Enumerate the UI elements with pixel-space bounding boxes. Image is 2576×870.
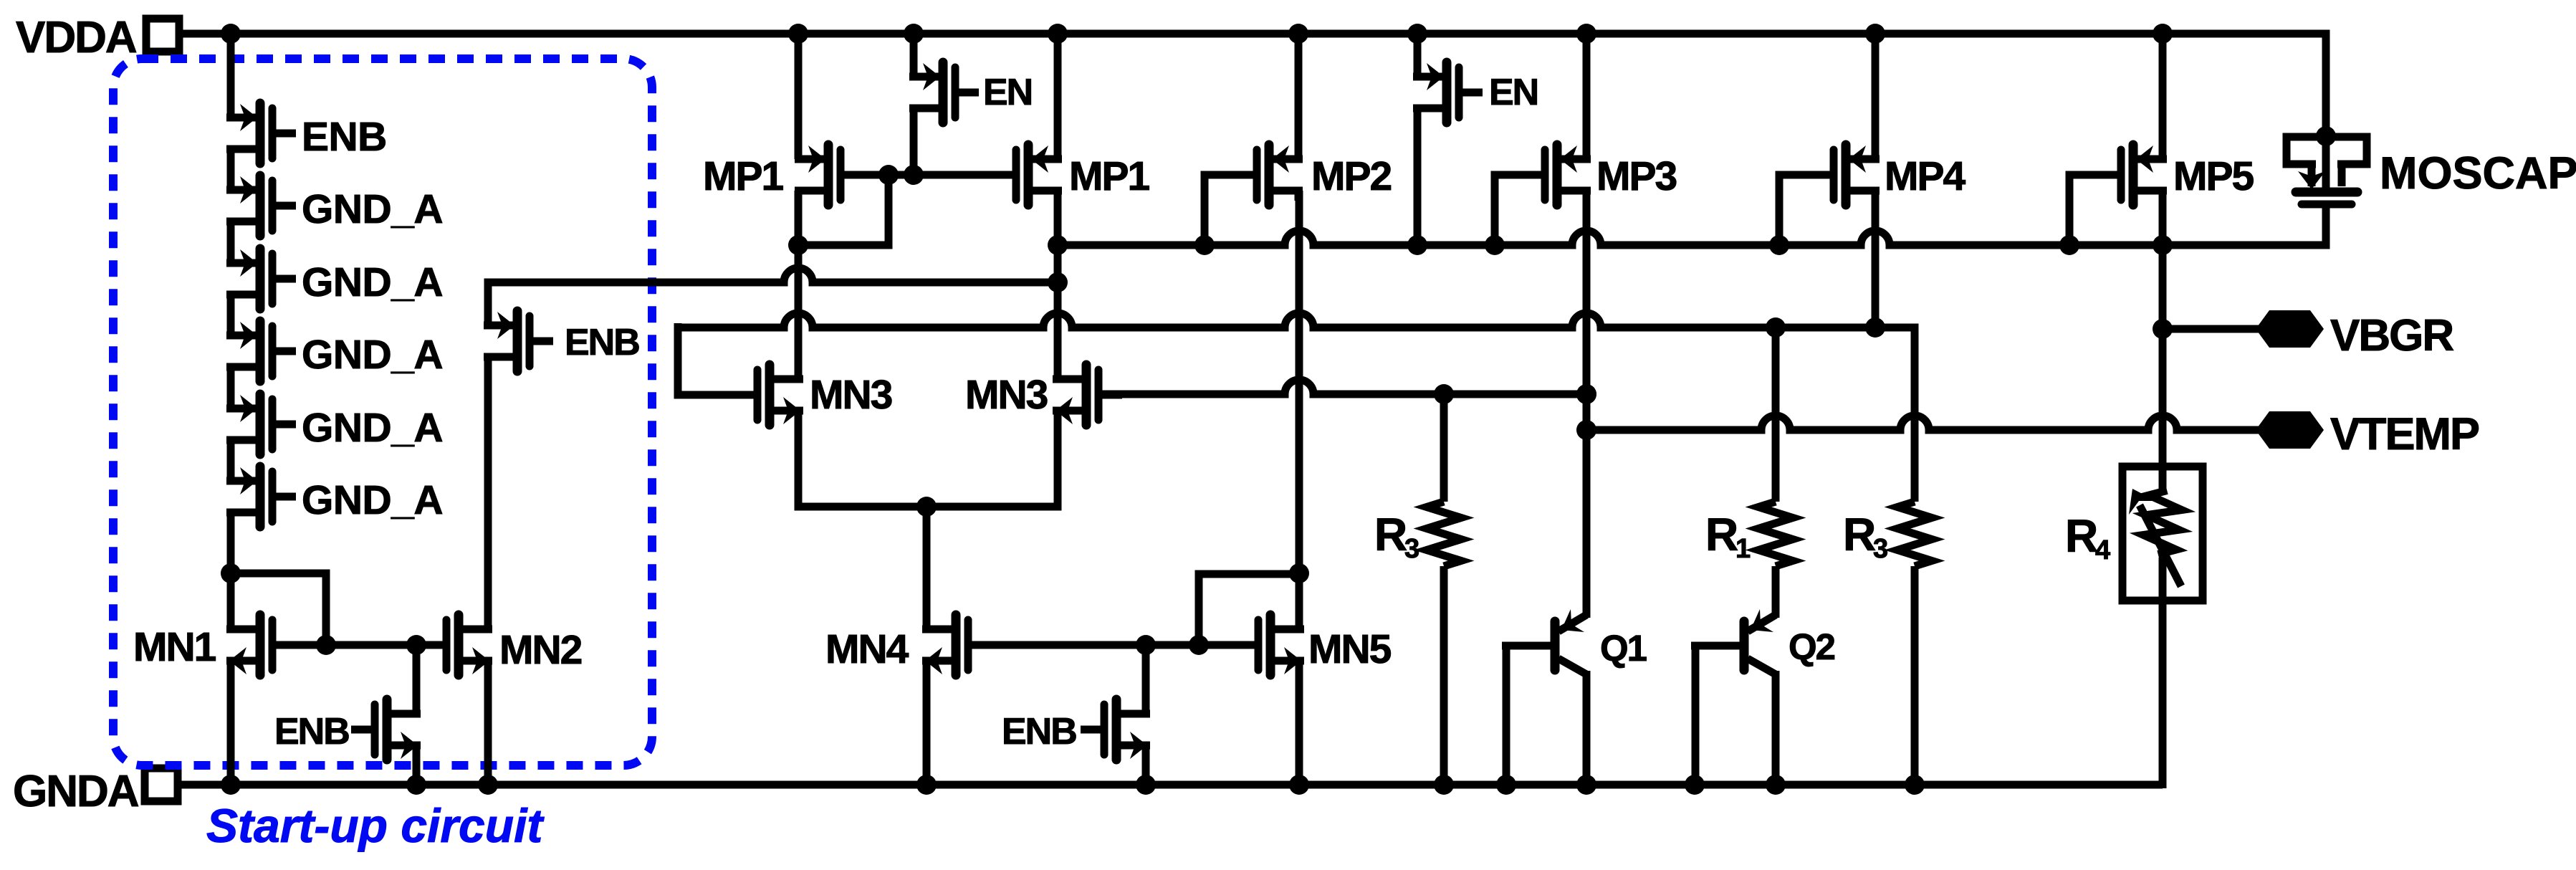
transistor MP4 (1810, 145, 1880, 205)
transistor Q2 (PNP) (1691, 609, 1776, 674)
wire MP5 drain column through R4 to ground (2159, 191, 2167, 788)
output pad VTEMP (2256, 411, 2324, 449)
wire MN3 gate line (feedback) (678, 313, 1915, 502)
transistor MP5 (2097, 145, 2167, 205)
wire ENB pulldown drain riser (413, 645, 421, 714)
terminal pad VDDA (146, 19, 179, 52)
svg-text:MP3: MP3 (1596, 153, 1677, 199)
transistor MN5 (1235, 615, 1304, 675)
wire MP1R source from rail (1054, 34, 1062, 159)
svg-text:MN2: MN2 (499, 627, 582, 673)
transistor Q1 (PNP) (1502, 609, 1586, 674)
svg-text:VDDA: VDDA (16, 13, 137, 62)
transistor startup stack M6 (PMOS diode) (226, 467, 296, 527)
transistor MN3 (left) (734, 365, 803, 425)
resistor R4 adjust arrow (2129, 489, 2181, 586)
transistor startup stack M5 (PMOS diode) (226, 394, 296, 454)
junction dots on MP3 drain column (1576, 384, 1596, 440)
wire R3b bottom to ground (1911, 566, 1919, 785)
wire MP4 drain to MN3 gate line (1872, 191, 1880, 328)
transistor MP1 (left) (795, 145, 864, 205)
resistor R4 zigzag (2141, 488, 2184, 557)
transistor MP3 (1521, 145, 1591, 205)
svg-text:VBGR: VBGR (2330, 311, 2453, 360)
junction dots on MP1 gate line (878, 165, 924, 185)
svg-text:MP2: MP2 (1311, 153, 1392, 199)
wire node to MN1/MN2 gate line (L) (231, 573, 326, 645)
output pad VBGR (2256, 310, 2324, 348)
svg-text:MP5: MP5 (2173, 153, 2254, 199)
junction node above MN1 (221, 563, 241, 583)
wire startup output line to MN3 drains (488, 268, 1058, 325)
junction dots on MN1-MN2 gate line (316, 635, 426, 655)
resistor R3 (second) (1897, 502, 1932, 566)
wire gate line MN1-MN2 (272, 641, 448, 649)
svg-text:MP1: MP1 (1069, 153, 1150, 199)
wire Q2 base to ground (1692, 646, 1700, 785)
wire EN2 drain to bias line (1414, 105, 1422, 245)
wire MN3L gate lead and riser to line (678, 323, 760, 395)
junction dot MN5 drain node (1289, 563, 1309, 583)
wire Q1 collector to ground (1583, 671, 1591, 785)
wire MP1L gate to drain (L) (798, 175, 889, 245)
junction dot VBGR node (2153, 319, 2173, 339)
wire MP3 gate lead to bias line (1495, 175, 1542, 245)
transistor MP2 (1233, 145, 1303, 205)
svg-text:GND_A: GND_A (302, 259, 443, 305)
wire startup ENB drain down to MN2 drain (484, 357, 492, 629)
wire MN2 source to ground (484, 661, 492, 785)
wire ENB2 drain riser (1142, 645, 1150, 714)
wire gate line MN4-MN5 (968, 641, 1260, 649)
wire MP1L drain down to MN3 drain (795, 191, 803, 379)
resistor R4 (adjustable) box (2122, 467, 2203, 601)
transistor EN switch 1 (PMOS) (909, 62, 979, 123)
wire MP5 gate lead to bias line (2069, 175, 2118, 245)
junction dot MP1L drain (788, 235, 808, 255)
svg-text:MP4: MP4 (1885, 153, 1966, 199)
svg-text:3: 3 (1873, 534, 1887, 564)
resistor R3 (first) (1427, 502, 1461, 566)
wire MP2 source from rail (1295, 34, 1303, 159)
wire MP1R drain down to MN3 drain (1054, 191, 1062, 379)
junction dots on MP1R drain (1048, 235, 1068, 292)
svg-text:R: R (1705, 509, 1738, 560)
wire MP3 drain column to Q1 emitter (1583, 191, 1591, 618)
wire gate bias line to MP2..MP5 and MOSCAP (1058, 208, 2326, 245)
wire MP1L gate/drain diode link (gate line) (844, 171, 1014, 179)
wire VTEMP line (1586, 416, 2264, 430)
wire R3a bottom to ground (1440, 566, 1448, 785)
svg-text:EN: EN (1489, 72, 1538, 113)
svg-text:4: 4 (2095, 535, 2110, 565)
transistor startup stack M2 (PMOS diode) (226, 176, 296, 236)
wire MP1L source from rail (795, 34, 803, 159)
start-up circuit boundary (blue dashed) (113, 59, 652, 765)
svg-text:MN3: MN3 (810, 372, 892, 418)
svg-text:GNDA: GNDA (13, 767, 139, 816)
svg-text:Q1: Q1 (1600, 628, 1647, 669)
transistor startup stack M1 (PMOS diode) (226, 103, 296, 163)
transistor MN4 (922, 615, 992, 675)
wire ENB2 source to ground (1142, 745, 1150, 785)
wire MP2 drain / MN5 drain column (1296, 191, 1303, 629)
svg-text:ENB: ENB (1002, 711, 1076, 752)
transistor MP1 (right) (992, 145, 1062, 205)
wire Q2 collector to ground (1772, 671, 1780, 785)
wire MP2 gate lead to bias line (1205, 175, 1254, 245)
wire MN5 source to ground (1296, 661, 1303, 785)
transistor MN1 (226, 615, 296, 675)
junction dot MOSCAP top (2316, 126, 2336, 146)
svg-text:R: R (1374, 509, 1407, 560)
wire MP5 source from rail (2159, 34, 2167, 159)
wire Q1 base to ground (1503, 646, 1510, 785)
svg-text:MN5: MN5 (1308, 626, 1392, 672)
wire tail down to MN4 drain (923, 507, 931, 629)
wire R1 top (1772, 328, 1780, 502)
svg-text:GND_A: GND_A (302, 477, 443, 523)
wire R1 bottom to Q2 emitter (1772, 566, 1780, 618)
wire MN1 source to ground (227, 661, 235, 785)
wire EN1 drain to gate line (910, 105, 918, 175)
junction dots on MN4-MN5 gate line (1136, 635, 1209, 655)
svg-text:MOSCAP: MOSCAP (2380, 148, 2576, 199)
wire GNDA rail (bottom) (178, 781, 2163, 789)
svg-text:EN: EN (983, 72, 1032, 113)
junction dots on MN3R gate line (1434, 384, 1596, 404)
wire VBGR line (2163, 325, 2264, 333)
junction dots on MN3 gate line (1766, 317, 1885, 338)
svg-text:VTEMP: VTEMP (2330, 409, 2479, 459)
wire ENB pulldown source to ground (413, 745, 421, 785)
wire MN3R gate output line (1102, 380, 1586, 394)
wire MP2 drain stub join (1295, 191, 1303, 201)
wire MN4 source to ground (923, 661, 931, 785)
wire MP4 source from rail (1872, 34, 1880, 159)
svg-text:MP1: MP1 (703, 153, 784, 199)
wire VDDA rail (top) (179, 34, 2326, 136)
wire MP3 source from rail (1583, 34, 1591, 159)
svg-text:Q2: Q2 (1789, 626, 1835, 667)
svg-text:3: 3 (1404, 534, 1419, 564)
svg-text:1: 1 (1735, 534, 1751, 564)
transistor MN2 (423, 615, 492, 675)
svg-text:R: R (1843, 509, 1875, 560)
wire EN1 source from rail (910, 34, 918, 77)
svg-text:MN4: MN4 (825, 626, 909, 672)
junction dots on GNDA rail (221, 775, 1925, 795)
capacitor MOSCAP body (2287, 136, 2367, 204)
svg-text:GND_A: GND_A (302, 332, 443, 378)
svg-text:MN1: MN1 (133, 624, 216, 670)
resistor R1 (1758, 502, 1793, 566)
terminal pad GNDA (145, 768, 178, 801)
svg-text:ENB: ENB (302, 114, 387, 160)
transistor ENB pulldown 2 (NMOS) (1081, 699, 1150, 760)
svg-text:R: R (2065, 510, 2097, 562)
junction dots on VDDA rail (221, 24, 2173, 44)
transistor startup ENB pulldown (NMOS) (351, 699, 421, 760)
svg-text:MN3: MN3 (965, 372, 1048, 418)
junction dots on gate bias line (1194, 235, 2173, 255)
wire MP4 gate lead to bias line (1779, 175, 1831, 245)
svg-text:ENB: ENB (274, 711, 349, 752)
svg-text:GND_A: GND_A (302, 186, 443, 232)
transistor startup ENB switch (PMOS) (484, 311, 553, 371)
transistor startup stack M3 (PMOS diode) (226, 249, 296, 309)
junction dot MN3 tail (916, 497, 937, 517)
wire MN5 gate-drain loop (1199, 574, 1299, 645)
wire R3a top (1440, 394, 1448, 502)
svg-text:ENB: ENB (565, 322, 639, 363)
transistor EN switch 2 (PMOS) (1413, 62, 1483, 123)
transistor startup stack M4 (PMOS diode) (226, 321, 296, 381)
svg-text:Start-up circuit: Start-up circuit (206, 799, 545, 852)
wire EN2 source from rail (1414, 34, 1422, 77)
transistor MN3 (right) (1053, 365, 1122, 425)
svg-text:GND_A: GND_A (302, 405, 443, 451)
wire startup stack drain/source chain (227, 34, 235, 629)
wire MN3 common source tail (798, 411, 1058, 507)
